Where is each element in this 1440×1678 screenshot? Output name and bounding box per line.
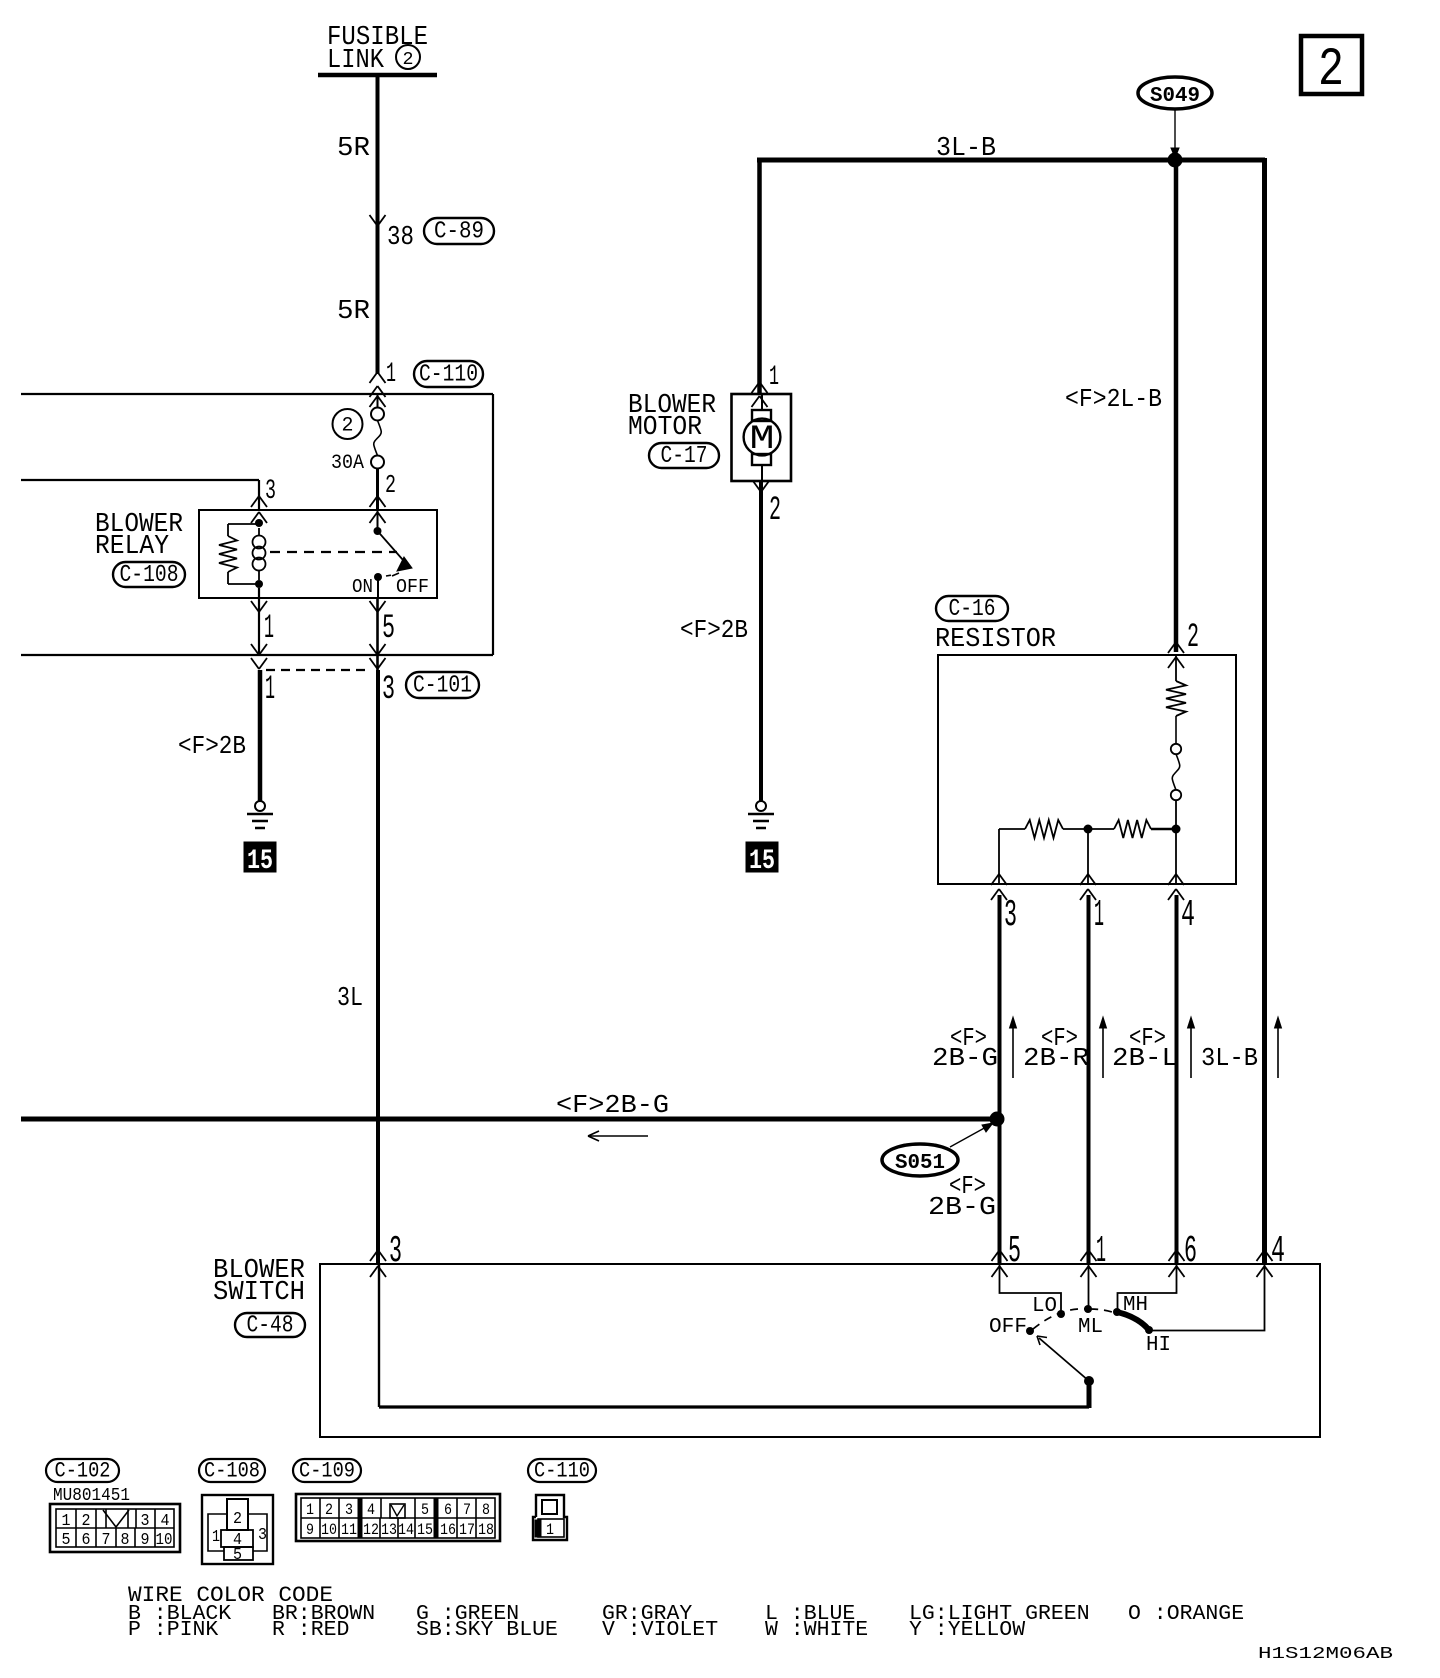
wire 5R below C-89 [337,222,378,374]
svg-text:<F>2B: <F>2B [680,615,748,645]
svg-text:16: 16 [440,1521,456,1539]
wire 3L-B to switch pin 4 [1262,158,1267,1264]
svg-text:2: 2 [342,415,354,438]
resistor box [938,655,1236,884]
svg-text:1: 1 [62,1512,71,1531]
connector face C-109 label [293,1459,361,1482]
svg-text:13: 13 [381,1521,397,1539]
motor pin 2 wire to ground [680,481,781,801]
svg-text:C-17: C-17 [661,443,708,470]
wire F 2B to ground left [178,670,260,801]
switch pin3 internal wire [379,1264,1089,1407]
svg-text:3: 3 [1004,894,1017,937]
wire fuse to relay pin 2 [370,468,397,523]
svg-text:15: 15 [749,846,775,877]
svg-text:C-102: C-102 [55,1459,111,1484]
svg-text:C-108: C-108 [120,562,179,589]
connector face C-102 label [46,1459,130,1506]
svg-text:3L-B: 3L-B [936,134,996,164]
relay pin 3 [251,476,276,523]
switch pin 3 entry [370,1230,402,1277]
svg-text:15: 15 [417,1521,433,1539]
svg-text:1: 1 [265,671,275,709]
svg-text:HI: HI [1146,1334,1171,1357]
svg-text:3: 3 [258,1526,267,1545]
svg-text:1: 1 [546,1521,554,1539]
switch contact HI [1145,1326,1171,1357]
svg-text:1: 1 [1096,1230,1106,1273]
connector face C-108 label [199,1459,265,1482]
svg-text:3: 3 [141,1512,150,1531]
svg-text:4: 4 [161,1512,170,1531]
relay ON OFF labels [352,576,429,598]
switch pin 1 entry [1081,1230,1107,1277]
switch pin4 internal wire to HI [1152,1264,1265,1331]
svg-text:12: 12 [363,1521,379,1539]
svg-text:C-110: C-110 [419,362,478,389]
svg-text:C-110: C-110 [534,1459,590,1484]
connector face C-110 [533,1495,567,1540]
blower motor M symbol [732,394,792,481]
wire blower motor feed [752,158,780,407]
switch pin1 internal wire to ML [1088,1264,1090,1306]
svg-text:1: 1 [769,362,779,393]
svg-text:LINK: LINK [327,46,385,76]
wire F 2B-R resistor to switch pin 1 [1023,895,1089,1264]
resistor C-16 label [935,596,1056,655]
wire F 2L-B to resistor pin 2 [1065,160,1199,668]
svg-text:3: 3 [265,476,276,507]
flow arrow 2B-R [1100,1017,1107,1078]
svg-text:1: 1 [386,359,396,390]
svg-text:2B-G: 2B-G [928,1192,996,1222]
svg-text:3L: 3L [337,984,363,1014]
svg-text:14: 14 [398,1521,414,1539]
blower motor C-17 label [628,391,719,470]
svg-text:4: 4 [367,1501,375,1519]
connector face C-109 [296,1494,500,1541]
svg-text:7: 7 [102,1531,111,1550]
svg-text:2: 2 [385,470,396,500]
svg-text:W :WHITE: W :WHITE [765,1619,868,1642]
svg-text:5: 5 [233,1546,242,1565]
svg-text:5: 5 [421,1501,429,1519]
svg-text:1: 1 [264,610,274,648]
resistor pin 3 lead [991,829,1017,937]
wire 3L relay to switch pin 3 [337,670,378,1264]
blower relay box [199,510,437,598]
svg-text:2B-L: 2B-L [1112,1043,1178,1073]
svg-text:5: 5 [1008,1230,1021,1273]
svg-text:6: 6 [444,1501,452,1519]
svg-text:11: 11 [341,1521,357,1539]
svg-text:10: 10 [156,1531,173,1550]
svg-text:ON: ON [352,576,373,598]
svg-text:7: 7 [463,1501,471,1519]
svg-text:1: 1 [1094,894,1104,937]
connector face C-102 [50,1504,180,1552]
relay pin 1 wire to C-101 [251,588,274,669]
ground ref 15 left [244,842,276,872]
switch pin5 internal wire to LO [1000,1264,1062,1311]
svg-text:OFF: OFF [396,576,429,598]
svg-text:C-109: C-109 [299,1459,355,1484]
wire F 2B-L resistor to switch pin 6 [1112,895,1178,1264]
svg-text:2: 2 [403,50,414,70]
svg-text:<F>2B: <F>2B [178,731,246,761]
wire into relay pin 3 from left [21,480,259,510]
svg-text:5: 5 [382,610,395,648]
svg-text:<F>2L-B: <F>2L-B [1065,384,1162,414]
switch wiper pivot [1084,1376,1094,1408]
resistor element left [999,820,1088,838]
svg-text:R :RED: R :RED [272,1619,349,1642]
switch pin 6 entry [1169,1230,1198,1277]
blower relay C-108 label [95,510,185,589]
relay coil [219,519,266,588]
switch pin 5 entry [992,1230,1022,1277]
switch contact ML [1078,1305,1103,1339]
thermal fuse in resistor [1171,744,1181,825]
wire F 2B-G resistor to switch pin 5 [932,895,1000,1264]
switch pin6 internal wire to MH [1118,1264,1177,1309]
svg-text:Y :YELLOW: Y :YELLOW [909,1619,1026,1642]
splice S051 [882,1123,993,1176]
svg-text:9: 9 [141,1531,150,1550]
svg-text:2B-G: 2B-G [932,1043,998,1073]
svg-text:LO: LO [1032,1295,1057,1318]
wire F 2B-G horizontal to left [21,1090,997,1120]
relay contact arm [374,510,413,598]
svg-text:3: 3 [382,671,395,709]
svg-text:C-89: C-89 [434,219,484,246]
fusible link bus bar [318,73,437,78]
svg-text:1: 1 [306,1501,314,1519]
wire label F 2B-G below S051 [928,1171,996,1222]
svg-text:2: 2 [769,492,781,530]
resistor element right [1088,820,1176,838]
relay pin 5 wire to C-101 [370,598,396,670]
switch contact MH [1113,1294,1148,1317]
svg-text:10: 10 [321,1521,337,1539]
ground ref 15 motor [746,842,778,872]
svg-text:C-101: C-101 [413,673,472,700]
ground symbol motor [756,801,766,811]
svg-text:17: 17 [459,1521,475,1539]
svg-text:9: 9 [306,1521,314,1539]
wire 3L-B horizontal top [757,134,1265,164]
svg-text:<F>2B-G: <F>2B-G [556,1090,669,1120]
svg-text:O :ORANGE: O :ORANGE [1128,1603,1244,1626]
svg-text:8: 8 [121,1531,130,1550]
svg-text:OFF: OFF [989,1316,1027,1339]
svg-text:8: 8 [482,1501,490,1519]
svg-text:ML: ML [1078,1316,1103,1339]
page number 2 box [1301,36,1362,101]
switch wiper arm [1037,1336,1089,1381]
svg-text:30A: 30A [331,452,364,475]
svg-text:2: 2 [233,1510,242,1529]
junction node at S051 [990,1112,1005,1127]
switch MH-HI bridge [1117,1312,1149,1330]
flow arrow 2B-G [1010,1017,1017,1078]
connector C-110 pin 1 [370,359,484,397]
svg-text:4: 4 [1271,1230,1285,1273]
svg-text:38: 38 [387,223,414,253]
svg-text:C-16: C-16 [949,596,996,623]
svg-text:15: 15 [247,846,273,877]
svg-text:RELAY: RELAY [95,532,169,562]
resistor element upper [1166,655,1186,744]
blower switch box [320,1264,1320,1437]
svg-text:C-48: C-48 [247,1313,294,1340]
svg-text:1: 1 [212,1528,220,1547]
svg-text:5: 5 [62,1531,71,1550]
svg-text:C-108: C-108 [204,1459,260,1484]
svg-text:SB:SKY BLUE: SB:SKY BLUE [416,1619,558,1642]
svg-text:2: 2 [1318,40,1344,101]
svg-text:H1S12M06AB: H1S12M06AB [1258,1645,1393,1664]
svg-text:SWITCH: SWITCH [213,1278,305,1308]
svg-text:3: 3 [389,1230,402,1273]
flow arrow 3L-B [1275,1017,1282,1078]
svg-text:2: 2 [82,1512,91,1531]
svg-text:P :PINK: P :PINK [128,1619,219,1642]
svg-text:2: 2 [325,1501,333,1519]
wire color code legend [128,1583,1244,1642]
svg-text:2: 2 [1187,619,1199,657]
svg-text:MOTOR: MOTOR [628,413,702,443]
svg-text:M: M [750,421,775,459]
flow arrow 2B-L [1188,1017,1195,1078]
switch contact OFF [989,1316,1034,1339]
svg-text:3: 3 [345,1501,353,1519]
svg-text:S049: S049 [1150,85,1200,108]
svg-text:3L-B: 3L-B [1201,1043,1258,1073]
ground symbol left [255,801,265,811]
switch contact arc dashed [1033,1309,1087,1329]
resistor pin 1 lead [1080,829,1104,937]
svg-text:4: 4 [1181,894,1195,937]
connector face C-108 [202,1495,273,1565]
wire 5R from fusible link [337,75,378,222]
svg-text:5R: 5R [337,297,370,327]
fusible link 2 label [327,23,428,76]
svg-text:18: 18 [478,1521,494,1539]
svg-text:6: 6 [1184,1230,1197,1273]
blower switch C-48 label [213,1256,305,1340]
junction node at S049 [1168,153,1183,168]
switch pin 4 entry [1257,1230,1286,1277]
fuse 30A element [331,394,386,475]
svg-text:6: 6 [82,1531,91,1550]
direction arrow on 2B-G wire [588,1131,648,1141]
resistor node junctions [1084,825,1181,834]
svg-text:2B-R: 2B-R [1023,1043,1089,1073]
connector C-101 inline [265,670,479,709]
junction block box [21,394,493,655]
splice S049 [1138,77,1212,158]
circuit breaker 2 symbol [333,409,363,439]
relay coil-contact dashed link [270,551,397,553]
switch contact LO [1032,1295,1065,1318]
connector C-89 pin 38 [370,215,495,253]
svg-text:5R: 5R [337,134,370,164]
svg-text:V :VIOLET: V :VIOLET [602,1619,718,1642]
connector face C-110 label [528,1459,596,1482]
resistor pin 4 lead [1168,829,1195,937]
svg-text:RESISTOR: RESISTOR [935,625,1056,655]
svg-text:S051: S051 [895,1152,945,1175]
